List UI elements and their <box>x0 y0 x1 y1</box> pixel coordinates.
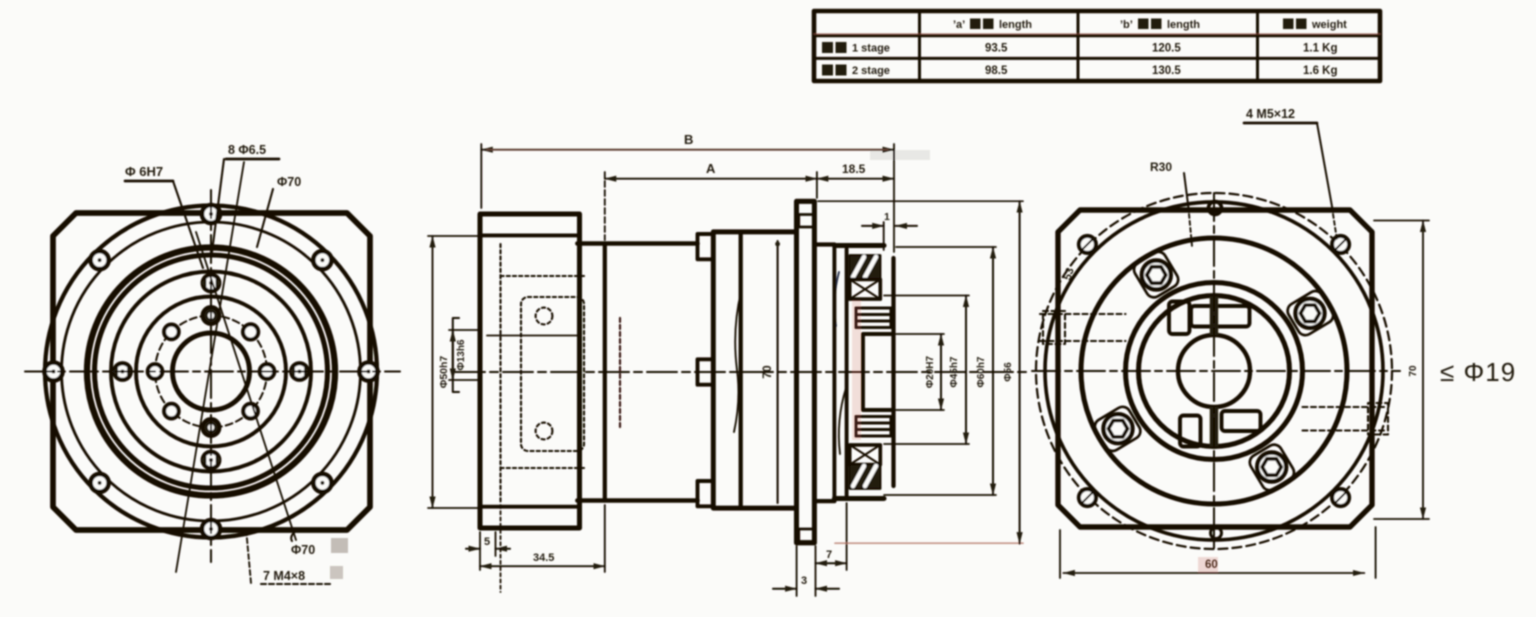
table row1 value a <box>985 43 1008 55</box>
svg-text:length: length <box>999 19 1032 31</box>
svg-text:Φ45h7: Φ45h7 <box>949 356 960 387</box>
svg-text:70: 70 <box>760 365 774 379</box>
rear clamp slot lower small <box>1180 416 1201 447</box>
input hub steps top <box>856 308 891 328</box>
table row2 value a <box>985 65 1008 77</box>
front section line 1 <box>176 162 244 572</box>
rear square flange <box>1058 210 1372 527</box>
svg-text:98.5: 98.5 <box>985 65 1008 77</box>
table column line 2 <box>1077 11 1080 81</box>
dim 34.5 bottom <box>480 505 605 592</box>
rear carrier circle <box>1126 283 1303 460</box>
input housing walls <box>814 245 884 502</box>
LEFTVIEW-GROUP <box>25 143 400 584</box>
break line squiggle 3 <box>839 388 846 454</box>
gear housing barrel <box>713 232 796 508</box>
svg-text:weight: weight <box>1311 19 1347 31</box>
svg-text:length: length <box>1167 19 1200 31</box>
svg-text:1: 1 <box>884 211 890 223</box>
svg-text:Φ20H7: Φ20H7 <box>925 356 936 389</box>
label phi6H7 <box>125 164 203 268</box>
rear pilot circle <box>1081 238 1347 504</box>
table header a length <box>953 19 1032 32</box>
svg-text:Φ70: Φ70 <box>291 543 315 557</box>
svg-text:1.6 Kg: 1.6 Kg <box>1303 65 1338 77</box>
svg-text:’b’: ’b’ <box>1120 19 1133 31</box>
rear clamp slit lower <box>1210 407 1218 447</box>
svg-text:’a’: ’a’ <box>953 19 965 31</box>
rear vertical centerline <box>1213 193 1215 549</box>
front body outer circle <box>45 206 377 538</box>
rear top edge pin <box>1209 202 1222 215</box>
svg-text:8 Φ6.5: 8 Φ6.5 <box>228 143 266 157</box>
label 53 small <box>1062 266 1077 281</box>
svg-text:Φ56: Φ56 <box>1003 362 1014 382</box>
rear socket screws 4x <box>1104 261 1325 482</box>
bearing red artifact <box>852 150 930 440</box>
front horizontal centerline <box>25 370 400 372</box>
rear bolt circle dashed <box>1036 193 1392 549</box>
front vertical centerline <box>210 190 212 562</box>
label phi70 bottom <box>291 530 348 557</box>
rear socket screw hexes <box>1109 267 1320 475</box>
table row line 1 <box>814 34 1380 36</box>
rear socket screw lugs 4x <box>1092 249 1336 493</box>
right dim phi56 flange <box>818 201 1023 543</box>
svg-text:Φ 6H7: Φ 6H7 <box>125 164 163 179</box>
output flange body <box>480 214 580 528</box>
rear clamp slot upper wide <box>1191 306 1250 327</box>
rear body circle <box>1045 202 1383 540</box>
input bearing top <box>850 255 881 299</box>
left dim phi50h7 <box>428 236 478 508</box>
right dim phi20H7 <box>896 334 944 410</box>
label 7-M4x8 <box>246 528 343 584</box>
front thick ring outer <box>87 248 335 496</box>
output flange hidden lines <box>501 244 585 503</box>
front flange inner circle <box>62 222 361 521</box>
svg-text:120.5: 120.5 <box>1152 43 1181 55</box>
front thick ring inner <box>95 255 328 488</box>
rear horizontal centerline <box>1032 370 1400 372</box>
svg-text:A: A <box>706 161 716 176</box>
svg-text:130.5: 130.5 <box>1152 65 1181 77</box>
rear clamp slot upper small <box>1169 302 1190 335</box>
front inner screw holes 8x <box>148 307 275 436</box>
left dim phi13h6 <box>449 318 478 392</box>
ring gear joint tabs <box>698 234 714 506</box>
svg-text:18.5: 18.5 <box>842 162 866 176</box>
svg-text:2 stage: 2 stage <box>852 65 890 77</box>
svg-text:Φ70: Φ70 <box>277 175 301 189</box>
table column line 1 <box>918 11 921 81</box>
table row1 weight <box>1303 43 1338 55</box>
svg-text:R30: R30 <box>1150 160 1172 174</box>
input bearing bottom <box>850 445 881 489</box>
right dim phi60h7 <box>884 247 996 495</box>
rotated label 70 <box>760 365 774 379</box>
dim 7 bottom <box>816 503 847 570</box>
svg-text:1 stage: 1 stage <box>852 43 890 55</box>
rear corner screws 4x <box>1079 236 1349 506</box>
svg-text:Φ50h7: Φ50h7 <box>438 356 450 389</box>
input hub steps bottom <box>856 417 891 437</box>
rear clamp slit upper <box>1210 297 1218 336</box>
input end cap line <box>891 258 895 486</box>
rear corner screw slots <box>1081 238 1347 504</box>
front outer bolt hole dots <box>52 212 371 531</box>
rear hidden clamp screw left <box>1040 311 1126 344</box>
rear clamp slot lower wide <box>1222 411 1261 431</box>
front output bore <box>173 333 250 410</box>
table row line 2 <box>814 57 1380 60</box>
front outer bolt holes 8x <box>45 205 378 538</box>
table row1 label 1 stage <box>822 42 890 55</box>
table outer border <box>814 11 1380 81</box>
rear hub circle <box>1139 296 1290 447</box>
svg-text:B: B <box>684 132 693 147</box>
svg-text:1.1 Kg: 1.1 Kg <box>1303 43 1338 55</box>
spacer hidden line <box>619 318 621 428</box>
svg-text:7 M4×8: 7 M4×8 <box>263 569 305 583</box>
rear hidden clamp screw right <box>1303 403 1389 435</box>
table column line 3 <box>1256 11 1259 81</box>
TABLE-GROUP <box>814 11 1380 81</box>
rear bottom edge pin <box>1211 528 1222 539</box>
svg-text:≤ Φ19: ≤ Φ19 <box>1440 357 1516 387</box>
input coupling bore <box>863 334 894 410</box>
front dowel holes 4x <box>114 275 308 469</box>
table row2 weight <box>1303 65 1338 77</box>
svg-text:93.5: 93.5 <box>985 43 1008 55</box>
break line squiggle 2 <box>835 272 839 326</box>
svg-text:5: 5 <box>484 536 490 548</box>
svg-text:Φ13h6: Φ13h6 <box>456 339 467 370</box>
table row2 label 2 stage <box>822 65 890 78</box>
front dowel hole horns <box>112 279 310 464</box>
dim 3 bottom <box>773 546 839 596</box>
label phi70 top <box>257 175 301 247</box>
right dim phi45h7 <box>884 296 969 445</box>
label 8-phi6.5 <box>212 143 279 252</box>
svg-text:Φ60h7: Φ60h7 <box>976 356 987 387</box>
table row2 value b <box>1152 65 1181 77</box>
rear input bore <box>1178 335 1250 407</box>
dim 1 <box>862 211 917 250</box>
rear bottom dim 60 <box>1060 527 1376 578</box>
svg-text:53: 53 <box>1062 266 1077 281</box>
dim 18.5 <box>817 162 894 179</box>
spacer ring section <box>577 244 697 501</box>
label 4-M5x12 <box>1244 107 1337 240</box>
label R30 <box>1150 160 1192 246</box>
front section line 2 <box>196 232 296 540</box>
MIDVIEW-GROUP <box>428 132 1030 596</box>
table row1 value b <box>1152 43 1181 55</box>
svg-text:3: 3 <box>801 575 807 587</box>
front square flange <box>53 213 370 530</box>
svg-text:4 M5×12: 4 M5×12 <box>1246 107 1295 121</box>
front inner bolt circle dashed <box>155 316 267 428</box>
svg-text:70: 70 <box>1408 365 1419 377</box>
side axis centerline <box>455 371 1030 373</box>
RIGHTVIEW-GROUP <box>1032 107 1516 578</box>
table header weight <box>1283 19 1347 32</box>
table header b length <box>1120 19 1200 32</box>
dim B <box>481 132 894 252</box>
svg-text:7: 7 <box>826 549 832 561</box>
rear right dim 70 <box>1374 221 1429 520</box>
motor flange plate <box>797 201 815 543</box>
label leq phi19 <box>1440 357 1516 387</box>
dim 5 bottom <box>466 532 510 570</box>
dim A <box>605 161 817 240</box>
front circle phi-100 <box>111 272 311 472</box>
break line squiggle 1 <box>734 292 741 432</box>
front circle phi-75 <box>136 297 286 447</box>
svg-text:34.5: 34.5 <box>533 552 554 564</box>
